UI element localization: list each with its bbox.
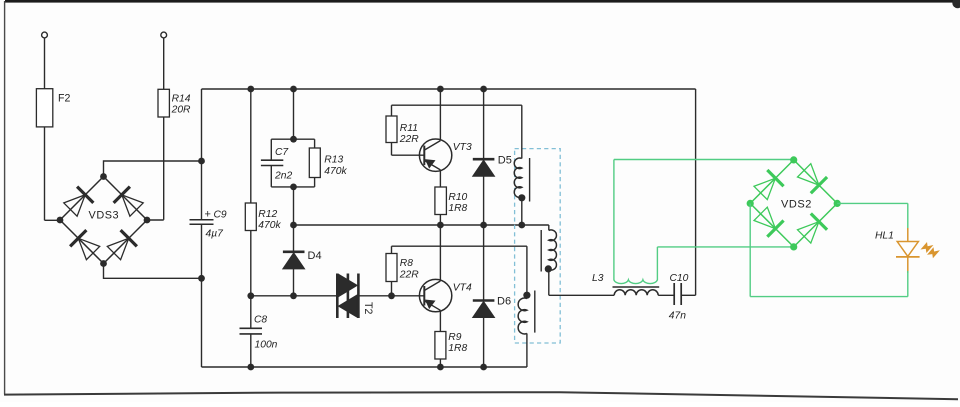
svg-text:100n: 100n [255,339,278,350]
svg-text:R14: R14 [172,93,191,104]
svg-text:47n: 47n [669,310,686,321]
svg-text:470k: 470k [258,220,281,231]
svg-text:D5: D5 [498,154,512,166]
svg-text:R13: R13 [324,155,343,166]
svg-text:D6: D6 [497,296,511,308]
svg-text:1R8: 1R8 [448,343,467,354]
svg-text:VT3: VT3 [453,142,472,153]
svg-text:C10: C10 [670,273,689,284]
svg-text:R12: R12 [258,209,277,220]
svg-text:L3: L3 [592,273,604,284]
svg-text:F2: F2 [58,93,70,105]
svg-text:1R8: 1R8 [448,203,467,214]
svg-text:VDS2: VDS2 [781,198,812,210]
svg-text:22R: 22R [399,134,419,145]
svg-text:C9: C9 [214,209,227,220]
svg-text:+: + [205,208,211,220]
svg-text:R10: R10 [448,192,467,203]
svg-text:D4: D4 [308,250,322,262]
svg-text:HL1: HL1 [875,231,894,242]
svg-text:R11: R11 [400,123,418,134]
svg-text:4µ7: 4µ7 [206,229,225,240]
svg-text:VDS3: VDS3 [89,209,120,221]
svg-text:470k: 470k [324,166,347,177]
svg-text:T2: T2 [362,302,374,314]
svg-text:2n2: 2n2 [274,171,292,182]
svg-text:R8: R8 [400,258,413,269]
svg-text:C7: C7 [275,147,289,158]
svg-text:VT4: VT4 [453,282,472,293]
svg-text:R9: R9 [448,332,461,343]
svg-text:C8: C8 [254,314,267,325]
svg-text:20R: 20R [171,105,191,116]
svg-text:22R: 22R [399,269,419,280]
